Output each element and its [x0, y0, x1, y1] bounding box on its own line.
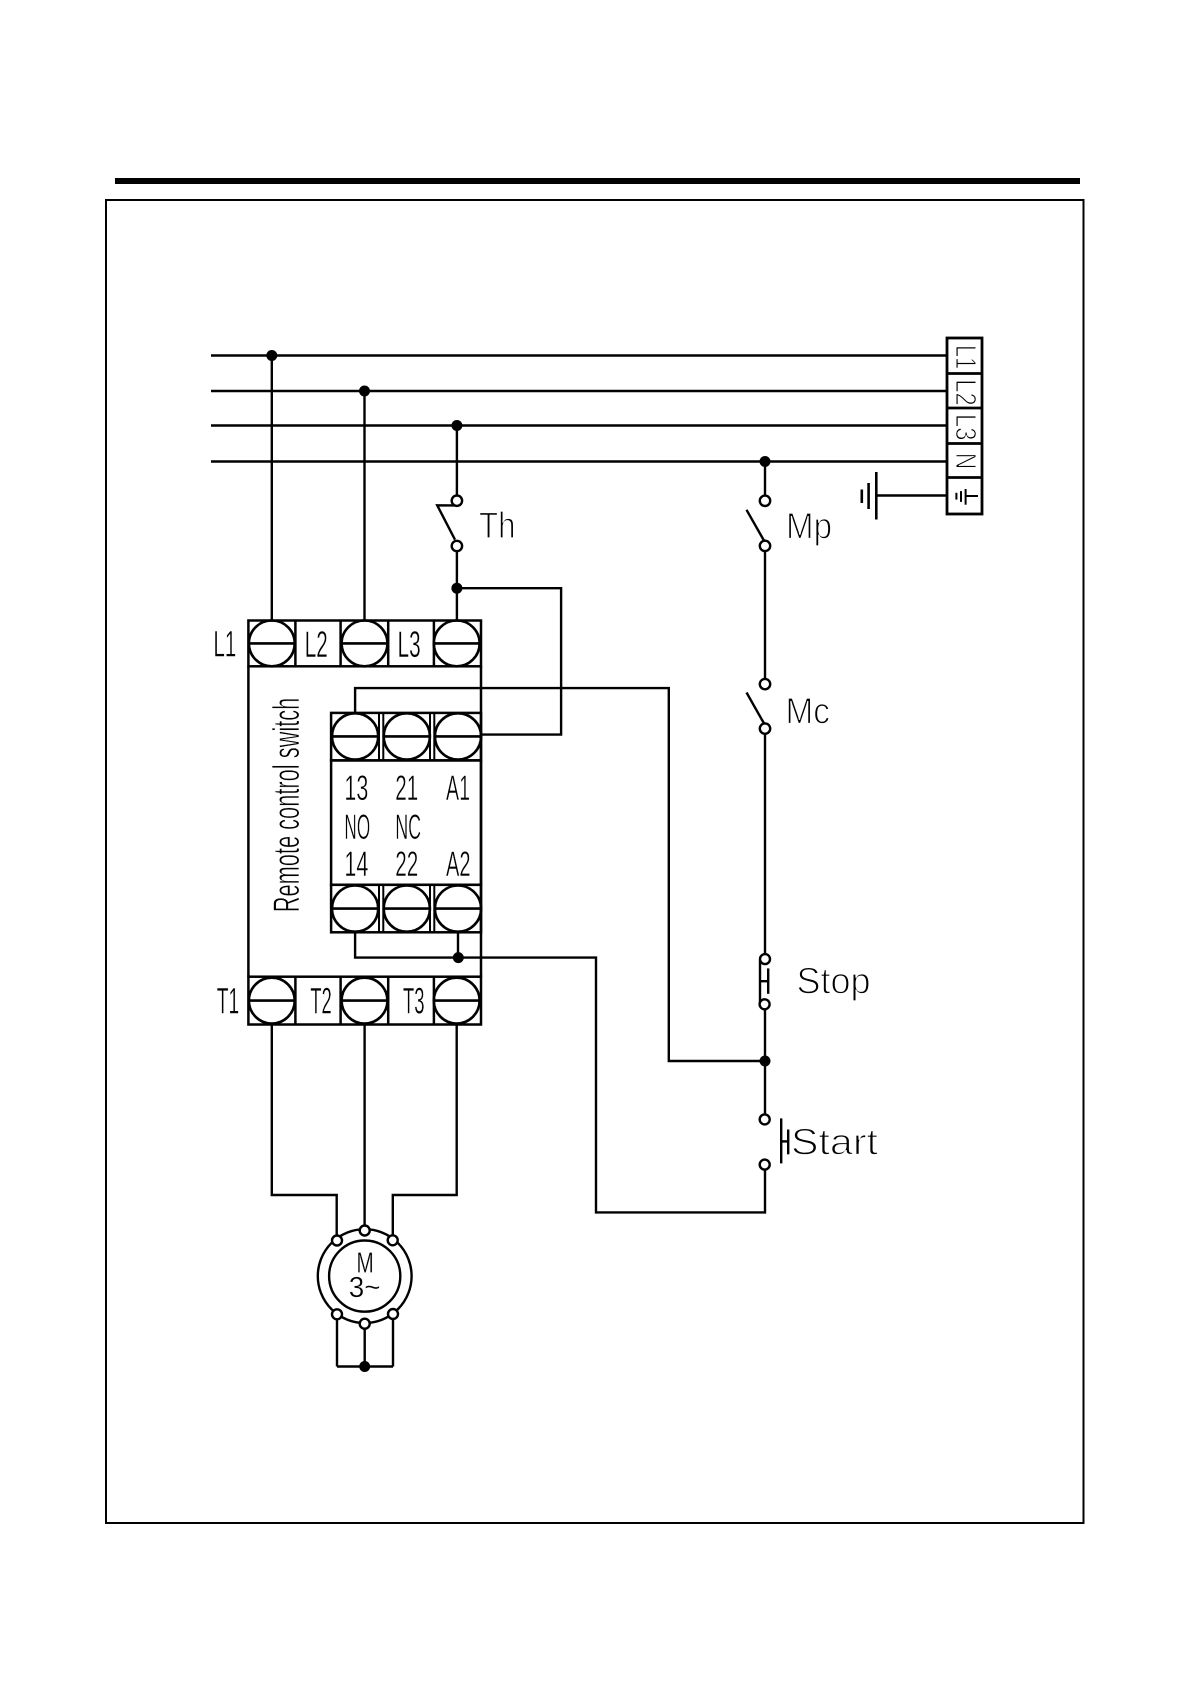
PE symbol inside terminal block — [956, 489, 978, 505]
terminal circle T2 (contactor bottom) — [341, 978, 389, 1024]
wire motor star point left — [336, 1319, 338, 1366]
earth ground symbol (left of terminal block) — [862, 472, 947, 520]
svg-text:Mc: Mc — [786, 691, 830, 732]
header rule (thick top bar) — [115, 178, 1080, 184]
push button Start (NO) — [760, 1114, 789, 1169]
svg-text:A1: A1 — [446, 769, 470, 808]
wire Mc to Stop — [764, 734, 766, 954]
motor terminal upper-left — [332, 1236, 342, 1246]
terminal circle A2 (aux bottom) — [434, 886, 482, 932]
svg-text:L3: L3 — [949, 414, 981, 441]
terminal circle 22 (aux bottom) — [383, 886, 431, 932]
node N tap junction — [760, 456, 771, 467]
svg-text:A2: A2 — [446, 845, 471, 884]
terminal circle 14 (aux bottom) — [331, 886, 380, 932]
wire T3 to motor — [393, 1025, 457, 1236]
terminal circle T3 (contactor bottom) — [434, 978, 481, 1024]
motor terminal bottom — [360, 1319, 370, 1329]
thermal switch Th — [437, 496, 462, 552]
terminal circle L2 (contactor top) — [341, 621, 389, 667]
svg-text:Remote control switch: Remote control switch — [266, 698, 307, 913]
svg-text:Start: Start — [791, 1122, 879, 1163]
wire Stop to node C to Start — [764, 1009, 766, 1114]
svg-text:L1: L1 — [949, 345, 981, 369]
motor terminal upper-right — [388, 1235, 398, 1245]
svg-text:21: 21 — [395, 769, 418, 808]
motor terminal lower-left — [332, 1309, 342, 1319]
terminal circle T1 (contactor bottom) — [248, 978, 295, 1024]
wire L2 bus — [211, 390, 947, 392]
push button Stop (NC) — [760, 954, 770, 1009]
wire Th to node A — [456, 551, 458, 621]
switch Mp — [747, 496, 771, 552]
auxiliary contact block (inner box) — [331, 713, 481, 932]
wire L3 bus — [211, 424, 947, 426]
node A (Th output junction) — [451, 583, 462, 594]
terminal circle 13 (aux top) — [331, 713, 380, 759]
svg-text:13: 13 — [344, 769, 368, 808]
terminal circle A1 (aux top) — [434, 713, 482, 759]
node B (A2/14 junction) — [453, 952, 464, 963]
svg-text:14: 14 — [344, 845, 368, 884]
node C (13/Stop/Start junction) — [760, 1056, 771, 1067]
node L3 tap junction — [451, 420, 462, 431]
wire L3 drop to Th — [456, 426, 458, 496]
svg-text:L1: L1 — [213, 624, 236, 665]
svg-text:L3: L3 — [398, 624, 421, 665]
wire A2 drop — [457, 932, 459, 957]
wire L2 drop to contactor — [363, 391, 365, 621]
node L2 tap junction — [359, 386, 370, 397]
wire N drop to Mp — [764, 462, 766, 496]
svg-text:T2: T2 — [310, 981, 332, 1022]
contactor outer box — [248, 621, 481, 1025]
svg-text:T3: T3 — [403, 981, 425, 1022]
wire L1 bus — [211, 354, 947, 356]
svg-text:T1: T1 — [217, 981, 240, 1022]
wire node A to A1 terminal (right side) — [457, 588, 561, 734]
terminal circle L3 (contactor top) — [434, 621, 481, 667]
svg-text:Mp: Mp — [786, 506, 832, 547]
svg-text:L2: L2 — [305, 624, 328, 665]
node D (motor star junction) — [359, 1361, 370, 1372]
wire terminal 13 to Stop/Start node — [355, 688, 765, 1061]
switch Mc — [747, 679, 771, 734]
motor terminal top — [360, 1226, 370, 1236]
wire motor star point centre — [364, 1329, 366, 1367]
wire L1 drop to contactor — [271, 356, 273, 622]
terminal circle 21 (aux top) — [383, 713, 431, 759]
wire T2 to motor — [363, 1025, 365, 1226]
svg-text:22: 22 — [395, 845, 418, 884]
wire 14 and A2 to Start return — [355, 932, 765, 1212]
terminal block X1 (L1 L2 L3 N PE) — [947, 338, 982, 514]
wire T1 to motor — [272, 1025, 337, 1236]
svg-text:N: N — [949, 453, 981, 469]
svg-text:Th: Th — [479, 505, 516, 546]
svg-text:NC: NC — [395, 808, 421, 847]
motor terminal lower-right — [388, 1309, 398, 1319]
svg-text:L2: L2 — [949, 379, 981, 406]
wire N bus — [211, 460, 947, 462]
svg-text:NO: NO — [344, 808, 370, 847]
node L1 tap junction — [266, 350, 277, 361]
svg-text:3~: 3~ — [349, 1272, 381, 1304]
wire motor star point right — [392, 1319, 394, 1367]
wire Mp to Mc — [764, 551, 766, 679]
wire motor star bottom bar — [337, 1365, 393, 1367]
drawing frame border — [106, 200, 1084, 1523]
terminal circle L1 (contactor top) — [248, 621, 295, 667]
svg-text:Stop: Stop — [797, 961, 871, 1002]
motor M 3~ — [318, 1229, 412, 1323]
